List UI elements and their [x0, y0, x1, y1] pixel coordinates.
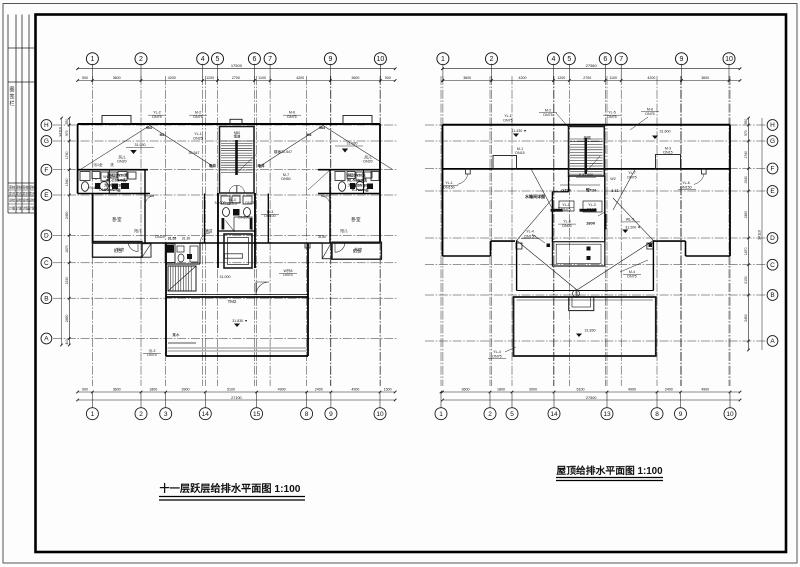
- svg-text:书房: 书房: [354, 246, 362, 253]
- svg-text:DN75: DN75: [627, 274, 636, 278]
- axis circle 7 top: [615, 53, 627, 65]
- svg-text:14: 14: [202, 411, 210, 418]
- svg-text:31.200 ▼: 31.200 ▼: [625, 226, 641, 230]
- title block strip: [8, 15, 36, 214]
- row circle F: [41, 164, 52, 175]
- svg-text:DN75: DN75: [99, 188, 108, 192]
- svg-text:审校: 审校: [29, 185, 36, 190]
- svg-text:2700: 2700: [583, 76, 591, 80]
- svg-text:DN20: DN20: [117, 160, 126, 164]
- svg-text:计图: 计图: [29, 206, 35, 211]
- roof chimney left: [493, 156, 517, 169]
- svg-text:DN100: DN100: [238, 216, 249, 220]
- svg-text:4900: 4900: [628, 388, 636, 392]
- top exterior wall: [78, 123, 380, 125]
- svg-text:B: B: [770, 292, 774, 299]
- svg-text:WL2: WL2: [103, 175, 110, 179]
- svg-text:C: C: [44, 260, 49, 267]
- svg-text:2150: 2150: [744, 276, 748, 284]
- svg-text:1670: 1670: [744, 247, 748, 255]
- wall divider x145: [144, 170, 146, 243]
- right dimension column: [748, 118, 750, 350]
- svg-text:污W扫DN100: 污W扫DN100: [104, 183, 124, 188]
- axis circle 2 top: [486, 53, 498, 65]
- svg-text:27500: 27500: [586, 396, 597, 400]
- roof right section bottom stepped wall: [729, 125, 731, 256]
- svg-text:2450: 2450: [65, 211, 69, 219]
- svg-text:3600: 3600: [113, 76, 121, 80]
- svg-text:YL-1: YL-1: [562, 203, 570, 207]
- svg-text:E: E: [44, 192, 49, 199]
- svg-text:31.30: 31.30: [182, 237, 191, 241]
- door arc bed left: [145, 196, 154, 205]
- axis circle 14 bottom: [553, 392, 555, 408]
- axis circle 9 bottom: [680, 392, 682, 408]
- elevator shaft: [224, 234, 252, 268]
- row circle C: [767, 259, 778, 270]
- axis grid verticals right plan: [440, 76, 442, 386]
- hip roof body: [516, 240, 518, 290]
- svg-text:B: B: [44, 295, 48, 302]
- svg-text:DN75: DN75: [492, 355, 501, 359]
- svg-text:9: 9: [680, 56, 684, 63]
- svg-text:4900: 4900: [701, 388, 709, 392]
- terrace notch: [569, 297, 594, 311]
- axis circle 5 top: [212, 53, 224, 65]
- row circle G: [767, 136, 778, 147]
- axis circle 6 top: [248, 53, 260, 65]
- svg-text:F: F: [44, 167, 48, 174]
- axis circle 8 bottom: [656, 392, 658, 408]
- svg-text:5: 5: [510, 411, 514, 418]
- svg-text:A: A: [770, 338, 775, 345]
- axis circle 10 top: [723, 53, 735, 65]
- svg-text:3600: 3600: [351, 76, 359, 80]
- svg-text:浴缸DN50洗: 浴缸DN50洗: [109, 173, 128, 178]
- row grid horizontals right plan: [425, 124, 766, 126]
- svg-text:2700: 2700: [232, 76, 240, 80]
- lower-left bathroom: [166, 263, 200, 265]
- svg-text:洗: 洗: [110, 162, 114, 167]
- leader diagonal right: [260, 126, 324, 167]
- balcony left below D: [93, 242, 143, 258]
- svg-text:1: 1: [441, 56, 445, 63]
- chimney on top wall: [230, 119, 242, 124]
- svg-text:YL4 DN25面: YL4 DN25面: [351, 187, 368, 192]
- tower roof rect: [552, 242, 604, 266]
- axis circle 1 bottom: [91, 392, 93, 408]
- svg-text:34110: 34110: [758, 230, 762, 240]
- svg-text:屋顶给排水平面图 1:100: 屋顶给排水平面图 1:100: [556, 464, 663, 477]
- core door arcs: [229, 185, 237, 193]
- svg-text:2: 2: [139, 56, 143, 63]
- axis circle 9 bottom: [330, 392, 332, 408]
- svg-text:4900: 4900: [351, 388, 359, 392]
- roof core stair: [569, 127, 605, 177]
- svg-text:5: 5: [567, 56, 571, 63]
- svg-text:1740: 1740: [65, 151, 69, 159]
- svg-text:6: 6: [252, 56, 256, 63]
- svg-text:DN150: DN150: [680, 186, 691, 190]
- svg-text:YL-2: YL-2: [153, 111, 161, 115]
- dark shaft left: [165, 244, 175, 263]
- right title: [556, 464, 663, 481]
- svg-text:1: 1: [91, 411, 95, 418]
- svg-text:图: 图: [9, 87, 14, 93]
- svg-text:2150: 2150: [65, 277, 69, 285]
- svg-text:1200: 1200: [206, 76, 214, 80]
- svg-text:M4: M4: [160, 133, 165, 137]
- svg-text:GT24: GT24: [561, 189, 571, 193]
- svg-text:31.55: 31.55: [168, 237, 177, 241]
- svg-text:D: D: [44, 233, 49, 240]
- svg-text:3900: 3900: [529, 388, 537, 392]
- svg-text:YL-1: YL-1: [504, 114, 512, 118]
- svg-text:污1全: 污1全: [93, 162, 103, 167]
- left plan labels: [89, 111, 373, 358]
- axis circle 10 bottom: [379, 392, 381, 408]
- svg-text:4: 4: [551, 56, 555, 63]
- svg-text:M-2: M-2: [195, 111, 201, 115]
- svg-text:阳儿: 阳儿: [340, 228, 348, 233]
- axis circle 13 bottom: [606, 392, 608, 408]
- bottom dimension lines: [78, 391, 396, 393]
- svg-text:G: G: [770, 138, 775, 145]
- svg-text:1740: 1740: [744, 151, 748, 159]
- row circle D: [767, 233, 778, 244]
- axis circle 5 top: [563, 53, 575, 65]
- svg-text:1800: 1800: [497, 388, 505, 392]
- valley diagonals: [531, 169, 553, 210]
- svg-text:DN75: DN75: [645, 112, 654, 116]
- svg-text:设绘: 设绘: [29, 198, 36, 203]
- svg-text:1540: 1540: [65, 178, 69, 186]
- svg-text:550: 550: [65, 119, 69, 125]
- svg-text:400: 400: [65, 339, 69, 345]
- svg-text:DN03: DN03: [562, 224, 571, 228]
- svg-text:7: 7: [268, 56, 272, 63]
- svg-text:浴缸DN50洗: 浴缸DN50洗: [347, 173, 366, 178]
- svg-text:DN75: DN75: [503, 119, 512, 123]
- svg-text:M50: M50: [234, 131, 240, 135]
- axis circle 5 bottom: [511, 392, 513, 408]
- svg-text:H: H: [770, 122, 775, 129]
- row circle C: [41, 257, 52, 268]
- corridor walls: [204, 194, 206, 244]
- svg-text:31.830 ▼: 31.830 ▼: [232, 319, 248, 323]
- left title: [159, 482, 305, 500]
- svg-text:10: 10: [377, 56, 385, 63]
- axis circle 10 bottom: [729, 392, 731, 408]
- svg-text:YL-1: YL-1: [194, 132, 202, 136]
- svg-text:2: 2: [488, 411, 492, 418]
- svg-text:集水: 集水: [172, 332, 180, 337]
- bottom dimension lines: [443, 391, 741, 393]
- row circle F: [767, 163, 778, 174]
- svg-text:3600: 3600: [113, 388, 121, 392]
- svg-text:电井: 电井: [209, 163, 217, 168]
- wall divider x330: [329, 170, 331, 243]
- svg-text:27100: 27100: [231, 396, 242, 400]
- svg-text:31.000: 31.000: [220, 275, 231, 279]
- svg-text:F: F: [771, 166, 775, 173]
- svg-text:W2: W2: [610, 177, 615, 181]
- openings in D wall: [150, 241, 163, 243]
- svg-text:3: 3: [164, 411, 168, 418]
- svg-text:WL-5 DN75洗: WL-5 DN75洗: [347, 178, 368, 183]
- row circle G: [41, 136, 52, 147]
- svg-text:阳儿: 阳儿: [134, 228, 142, 233]
- axis grid verticals left plan: [91, 76, 93, 386]
- svg-text:9: 9: [328, 56, 332, 63]
- svg-text:3600: 3600: [462, 388, 470, 392]
- wall row F right: [318, 169, 380, 171]
- svg-text:M-6: M-6: [647, 108, 653, 112]
- svg-text:1: 1: [90, 56, 94, 63]
- core bathroom fixtures: [221, 196, 252, 217]
- svg-text:DN75: DN75: [561, 208, 570, 212]
- svg-text:M-4: M-4: [629, 270, 635, 274]
- wall x92.6 lower: [92, 194, 94, 244]
- svg-text:10: 10: [376, 411, 384, 418]
- svg-text:面盆: 面盆: [206, 228, 213, 233]
- svg-text:4200: 4200: [647, 76, 655, 80]
- right exterior wall: [379, 124, 381, 243]
- svg-text:M-6: M-6: [289, 111, 295, 115]
- svg-text:1200: 1200: [557, 76, 565, 80]
- svg-text:14: 14: [550, 411, 558, 418]
- svg-text:G: G: [44, 138, 49, 145]
- svg-text:WL-5: WL-5: [626, 218, 635, 222]
- row circle E: [41, 190, 52, 201]
- axis circle 15 bottom: [256, 392, 258, 408]
- svg-text:DN25: DN25: [155, 235, 164, 239]
- svg-text:2450: 2450: [744, 314, 748, 322]
- svg-text:900: 900: [385, 76, 391, 80]
- svg-text:1800: 1800: [149, 388, 157, 392]
- svg-text:计图: 计图: [9, 206, 15, 211]
- svg-text:4900: 4900: [278, 388, 286, 392]
- svg-text:900: 900: [82, 76, 88, 80]
- svg-text:楼面30.547: 楼面30.547: [274, 149, 292, 154]
- stair core walls: [220, 127, 255, 194]
- svg-text:DN20: DN20: [363, 160, 372, 164]
- lower block mid wall: [166, 296, 308, 298]
- svg-text:DN15: DN15: [515, 151, 524, 155]
- svg-text:污W扫DN100: 污W扫DN100: [348, 183, 368, 188]
- svg-text:YL-7: YL-7: [628, 171, 636, 175]
- stair treads: [221, 140, 253, 142]
- svg-text:定对: 定对: [29, 191, 36, 196]
- svg-text:D: D: [770, 235, 775, 242]
- svg-text:栏: 栏: [9, 100, 14, 107]
- svg-text:34110: 34110: [59, 127, 63, 137]
- axis circle 9 top: [676, 53, 688, 65]
- svg-text:3L50: 3L50: [318, 235, 326, 239]
- svg-text:2450: 2450: [65, 315, 69, 323]
- svg-text:1100: 1100: [609, 76, 617, 80]
- svg-text:10: 10: [725, 56, 733, 63]
- row circle E: [767, 186, 778, 197]
- row circle B: [767, 290, 778, 301]
- svg-text:9: 9: [679, 411, 683, 418]
- left dimension column: [68, 118, 70, 345]
- lower-left stair: [168, 266, 196, 291]
- svg-text:31.930: 31.930: [135, 143, 146, 147]
- svg-text:1670: 1670: [65, 245, 69, 253]
- wall row D: [93, 242, 380, 244]
- svg-text:H: H: [44, 122, 49, 129]
- wall row F left: [78, 169, 148, 171]
- svg-text:DN75: DN75: [193, 115, 202, 119]
- svg-text:9: 9: [329, 411, 333, 418]
- svg-text:8: 8: [305, 411, 309, 418]
- axis circle 2 bottom: [489, 392, 491, 408]
- hip diagonals: [517, 240, 577, 290]
- row circle B: [41, 293, 52, 304]
- svg-text:30.547: 30.547: [189, 151, 200, 155]
- roof chimney right: [656, 155, 681, 169]
- svg-text:E: E: [770, 188, 775, 195]
- hip corner squares: [516, 243, 522, 249]
- core bathroom walls: [218, 230, 255, 232]
- svg-text:风帽: 风帽: [583, 135, 591, 140]
- svg-text:M4: M4: [307, 133, 312, 137]
- axis circle 2 bottom: [140, 392, 142, 408]
- top dimension lines: [443, 68, 741, 70]
- svg-text:签: 签: [9, 93, 14, 100]
- svg-text:13: 13: [603, 411, 611, 418]
- axis circle 10 top: [374, 53, 386, 65]
- svg-text:DN25: DN25: [193, 137, 202, 141]
- row circle H: [41, 120, 52, 131]
- svg-text:YL-1: YL-1: [445, 181, 453, 185]
- svg-text:2: 2: [139, 411, 143, 418]
- row circle H: [767, 120, 778, 131]
- svg-text:DN150: DN150: [443, 186, 454, 190]
- axis circle 3 bottom: [165, 392, 167, 408]
- svg-text:DN75: DN75: [287, 115, 296, 119]
- flue box with X left: [142, 244, 151, 258]
- leader diagonal left: [81, 126, 150, 170]
- axis circle 4 top: [547, 53, 559, 65]
- svg-text:3.61: 3.61: [611, 189, 618, 193]
- axis circle 9 top: [324, 53, 336, 65]
- roof top exterior wall: [443, 124, 731, 126]
- svg-text:970: 970: [744, 130, 748, 136]
- svg-text:DN150: DN150: [524, 234, 535, 238]
- svg-text:5: 5: [216, 56, 220, 63]
- svg-text:2400: 2400: [315, 388, 323, 392]
- axis circle 1 bottom: [440, 392, 442, 408]
- core side walls down to elevator: [217, 193, 219, 268]
- svg-text:DN75: DN75: [607, 115, 616, 119]
- svg-text:1100: 1100: [258, 76, 266, 80]
- svg-text:17500: 17500: [231, 63, 243, 68]
- lower block right wall: [307, 243, 309, 356]
- svg-text:2450: 2450: [744, 211, 748, 219]
- roof F wall: [443, 168, 731, 170]
- svg-text:DN15: DN15: [663, 151, 672, 155]
- svg-text:31.600: 31.600: [660, 130, 671, 134]
- svg-text:4: 4: [201, 56, 205, 63]
- axis circle 4 top: [197, 53, 209, 65]
- axis circle 8 bottom: [306, 392, 308, 408]
- svg-text:TM2: TM2: [228, 299, 237, 304]
- svg-text:3600: 3600: [701, 76, 709, 80]
- balcony top right: [343, 116, 372, 125]
- TM2 door arc: [256, 282, 269, 295]
- svg-text:恒T24: 恒T24: [586, 188, 597, 193]
- svg-text:YL-3: YL-3: [588, 203, 596, 207]
- roof core below: water tank room: [551, 192, 553, 242]
- svg-text:31.000: 31.000: [215, 201, 226, 205]
- svg-text:970: 970: [65, 130, 69, 136]
- svg-text:900: 900: [82, 388, 88, 392]
- svg-text:计图: 计图: [16, 206, 22, 211]
- pipe bar on corridor wall: [222, 218, 225, 230]
- svg-text:9b4: 9b4: [319, 126, 325, 130]
- svg-text:4200: 4200: [519, 76, 527, 80]
- svg-text:YL-4: YL-4: [526, 230, 534, 234]
- lower bath left fixtures: [80, 172, 136, 193]
- axis circle 2 top: [135, 53, 147, 65]
- svg-text:YL-6: YL-6: [682, 181, 690, 185]
- svg-text:YL-4: YL-4: [493, 350, 501, 354]
- wall under bath left: [78, 193, 150, 195]
- axis circle 1 top: [437, 53, 449, 65]
- svg-text:十一层跃层给排水平面图 1:100: 十一层跃层给排水平面图 1:100: [160, 482, 301, 495]
- svg-text:F 31.600: F 31.600: [579, 173, 593, 177]
- svg-text:6: 6: [603, 56, 607, 63]
- svg-text:31.430 ▼: 31.430 ▼: [511, 129, 527, 133]
- svg-text:M-2: M-2: [545, 109, 551, 113]
- lower block bottom wall: [166, 355, 308, 357]
- svg-text:YL-3: YL-3: [563, 220, 571, 224]
- row grid horizontals left plan: [53, 124, 397, 126]
- lower bath right fixtures: [335, 172, 379, 193]
- top dimension lines: [78, 68, 396, 70]
- svg-text:DN75: DN75: [543, 113, 552, 117]
- svg-text:C: C: [770, 262, 775, 269]
- svg-text:DN95: DN95: [587, 208, 596, 212]
- svg-text:31.930: 31.930: [347, 142, 358, 146]
- svg-text:书房: 书房: [116, 246, 124, 253]
- left exterior wall: [77, 124, 79, 194]
- roof left section bottom stepped wall: [442, 125, 444, 256]
- svg-text:1540: 1540: [744, 176, 748, 184]
- svg-text:DN50: DN50: [281, 177, 290, 181]
- svg-text:5100: 5100: [577, 388, 585, 392]
- svg-text:卧室: 卧室: [351, 216, 361, 223]
- svg-text:550: 550: [744, 119, 748, 125]
- svg-text:10: 10: [726, 411, 734, 418]
- svg-text:水箱间详图: 水箱间详图: [524, 193, 545, 199]
- axis circle 14 bottom: [204, 392, 206, 408]
- svg-text:DN75: DN75: [245, 201, 254, 205]
- balcony right below D: [332, 242, 381, 259]
- pipe cluster segments: [551, 209, 563, 212]
- svg-text:1500: 1500: [384, 388, 392, 392]
- lower block left wall: [165, 243, 167, 356]
- wall under bath right: [318, 193, 380, 195]
- roof terrace: [514, 297, 656, 356]
- axis circle 1 top: [86, 53, 98, 65]
- svg-text:DN75: DN75: [152, 115, 161, 119]
- svg-text:A: A: [44, 336, 49, 343]
- flue box with X right: [322, 243, 331, 259]
- svg-text:2: 2: [490, 56, 494, 63]
